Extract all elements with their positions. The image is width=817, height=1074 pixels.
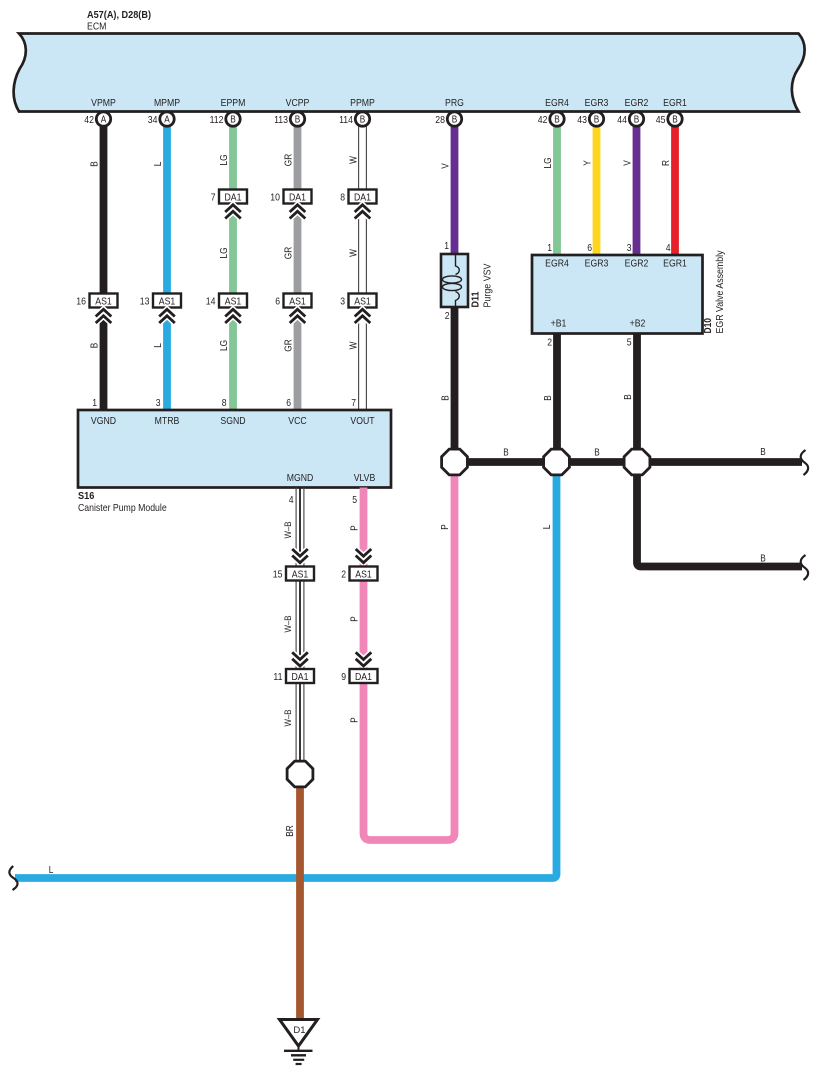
wire B from D10 +B2 to junction node — [633, 332, 641, 462]
svg-text:8: 8 — [222, 397, 227, 409]
svg-text:45: 45 — [656, 114, 666, 126]
junction node J1 — [442, 449, 468, 475]
svg-text:B: B — [760, 447, 766, 458]
svg-text:B: B — [452, 115, 458, 126]
svg-text:VCC: VCC — [288, 415, 307, 427]
svg-text:34: 34 — [148, 114, 158, 126]
svg-text:6: 6 — [587, 242, 592, 254]
svg-text:113: 113 — [274, 114, 288, 126]
D11 designator label — [470, 263, 494, 307]
svg-text:V: V — [623, 160, 634, 166]
svg-text:W: W — [349, 249, 360, 257]
D11 Purge VSV valve box — [441, 254, 468, 307]
svg-text:L: L — [153, 343, 164, 348]
ECM pin 34 connector A (MPMP) — [148, 112, 174, 126]
svg-text:B: B — [295, 115, 301, 126]
chevrons above AS1 pin 2 — [356, 549, 372, 563]
connector AS1 pin 15 (MGND wire) — [273, 567, 314, 581]
svg-text:6: 6 — [275, 296, 280, 308]
svg-text:D1: D1 — [293, 1025, 305, 1036]
wire LG from ECM pin 112 EPPM to S16 pin 8 — [229, 124, 237, 410]
svg-text:10: 10 — [270, 192, 280, 204]
svg-text:44: 44 — [617, 114, 627, 126]
ECM pin 114 connector B (PPMP) — [339, 112, 370, 126]
svg-text:LG: LG — [219, 154, 230, 165]
svg-text:28: 28 — [435, 114, 445, 126]
svg-text:EGR3: EGR3 — [585, 97, 609, 109]
svg-text:4: 4 — [289, 494, 294, 506]
svg-text:3: 3 — [156, 397, 161, 409]
svg-text:P: P — [440, 524, 451, 530]
svg-text:LG: LG — [543, 157, 554, 168]
svg-text:B: B — [230, 115, 236, 126]
svg-text:MTRB: MTRB — [155, 415, 180, 427]
svg-text:112: 112 — [210, 114, 224, 126]
svg-text:6: 6 — [286, 397, 291, 409]
ECM pin 42 connector A (VPMP) — [84, 112, 110, 126]
connector DA1 pin 9 (VLVB wire) — [341, 669, 377, 683]
wire B from D10 +B1 to junction node — [553, 332, 561, 462]
svg-text:B: B — [594, 115, 600, 126]
svg-text:EGR1: EGR1 — [663, 258, 687, 270]
svg-text:B: B — [503, 448, 509, 459]
svg-text:VGND: VGND — [91, 415, 117, 427]
svg-text:8: 8 — [340, 192, 345, 204]
svg-text:GR: GR — [284, 154, 295, 166]
chevrons below AS1 pin 14 — [225, 309, 241, 323]
svg-text:EGR3: EGR3 — [585, 258, 609, 270]
connector DA1 pin 7 (EPPM wire) — [211, 190, 247, 204]
connector AS1 pin 14 (EPPM wire) — [206, 294, 247, 308]
svg-text:B: B — [360, 115, 366, 126]
svg-text:4: 4 — [666, 242, 671, 254]
connector AS1 pin 6 (VCPP wire) — [275, 294, 311, 308]
svg-text:A57(A), D28(B): A57(A), D28(B) — [87, 9, 151, 21]
svg-text:VCPP: VCPP — [286, 97, 310, 109]
ECM pin 45 connector B (EGR1) — [656, 112, 682, 126]
connector DA1 pin 10 (VCPP wire) — [270, 190, 311, 204]
svg-text:A: A — [101, 115, 107, 126]
svg-text:B: B — [90, 342, 101, 348]
connector AS1 pin 13 (MPMP wire) — [140, 294, 181, 308]
svg-text:BR: BR — [285, 825, 296, 837]
svg-text:D11: D11 — [470, 291, 482, 307]
chevrons above DA1 pin 9 — [356, 652, 372, 666]
chevrons below DA1 pin 8 — [355, 205, 371, 219]
svg-text:Canister Pump Module: Canister Pump Module — [78, 502, 167, 514]
svg-text:A: A — [164, 115, 170, 126]
wire R from ECM pin 45 EGR1 to D10 pin 4 — [671, 124, 679, 257]
svg-text:3: 3 — [340, 296, 345, 308]
svg-text:42: 42 — [84, 114, 94, 126]
svg-text:+B1: +B1 — [551, 318, 567, 330]
svg-text:1: 1 — [547, 242, 552, 254]
svg-text:B: B — [760, 554, 766, 565]
svg-text:MGND: MGND — [287, 472, 314, 484]
S16 designator label — [78, 490, 167, 514]
svg-text:V: V — [441, 163, 452, 169]
ECM pin 112 connector B (EPPM) — [210, 112, 241, 126]
wire GR from ECM pin 113 VCPP to S16 pin 6 — [294, 124, 302, 410]
connector DA1 pin 11 (MGND wire) — [273, 669, 314, 683]
chevrons above AS1 pin 15 — [292, 549, 308, 563]
svg-text:ECM: ECM — [87, 21, 106, 33]
svg-text:B: B — [554, 115, 560, 126]
chevrons below AS1 pin 16 — [96, 309, 112, 323]
svg-text:16: 16 — [76, 296, 86, 308]
svg-text:11: 11 — [273, 671, 282, 683]
svg-text:VOUT: VOUT — [350, 415, 375, 427]
svg-text:EGR4: EGR4 — [545, 258, 569, 270]
svg-text:Y: Y — [583, 160, 594, 166]
svg-text:L: L — [49, 865, 54, 876]
svg-text:P: P — [350, 717, 361, 723]
svg-text:114: 114 — [339, 114, 353, 126]
wire V from ECM pin 44 EGR2 to D10 pin 3 — [633, 124, 641, 257]
svg-text:W: W — [349, 341, 360, 349]
connector AS1 pin 2 (VLVB wire) — [341, 567, 377, 581]
svg-text:W–B: W–B — [283, 615, 294, 632]
break symbol left end of L wire — [9, 866, 17, 890]
wire B from D11 pin 2 to junction node — [451, 305, 459, 462]
svg-text:SGND: SGND — [220, 415, 246, 427]
svg-text:R: R — [661, 160, 672, 166]
svg-text:LG: LG — [219, 340, 230, 351]
svg-text:15: 15 — [273, 569, 283, 581]
ECM pin 42 connector B (EGR4) — [538, 112, 564, 126]
break symbol right end of bus — [801, 450, 808, 475]
wire LG from ECM pin 42 EGR4 to D10 pin 1 — [553, 124, 561, 257]
ground symbol D1 — [280, 1020, 318, 1065]
svg-text:EPPM: EPPM — [221, 97, 246, 109]
chevrons below DA1 pin 10 — [290, 205, 306, 219]
svg-text:L: L — [153, 161, 164, 166]
svg-text:LG: LG — [219, 247, 230, 258]
svg-text:W: W — [349, 156, 360, 164]
S16 Canister Pump Module block — [78, 410, 391, 488]
wire P from S16 VLVB pin 5 down, right, up to junction J1 — [364, 462, 455, 840]
svg-text:VPMP: VPMP — [91, 97, 116, 109]
svg-text:1: 1 — [92, 397, 97, 409]
junction node J4 (W-B to BR splice) — [287, 761, 313, 787]
svg-text:B: B — [623, 394, 634, 400]
svg-text:P: P — [350, 525, 361, 531]
svg-text:D10: D10 — [702, 318, 714, 334]
wire B from ECM pin 42 VPMP to S16 pin 1 — [100, 124, 108, 410]
D10 EGR Valve Assembly block — [532, 255, 703, 334]
chevrons below DA1 pin 7 — [225, 205, 241, 219]
svg-text:S16: S16 — [78, 490, 94, 502]
ECM pin 44 connector B (EGR2) — [617, 112, 643, 126]
svg-text:W–B: W–B — [283, 709, 294, 726]
svg-text:EGR Valve Assembly: EGR Valve Assembly — [715, 251, 726, 334]
svg-text:AS1: AS1 — [292, 569, 309, 581]
svg-text:B: B — [543, 395, 554, 401]
ECM pin 43 connector B (EGR3) — [577, 112, 603, 126]
chevrons below AS1 pin 3 — [355, 309, 371, 323]
svg-text:GR: GR — [284, 247, 295, 259]
junction node J2 — [544, 449, 570, 475]
svg-text:2: 2 — [445, 310, 450, 322]
connector AS1 pin 16 (VPMP wire) — [76, 294, 117, 308]
svg-text:43: 43 — [577, 114, 587, 126]
wire BR from junction J4 to ground D1 — [296, 774, 304, 1020]
svg-text:2: 2 — [341, 569, 346, 581]
svg-text:GR: GR — [284, 339, 295, 351]
junction node J3 — [624, 449, 650, 475]
svg-text:B: B — [441, 395, 452, 401]
wire B branch from junction J3 down and right to edge break — [637, 462, 802, 567]
svg-text:B: B — [634, 115, 640, 126]
chevrons below AS1 pin 13 — [159, 309, 175, 323]
wire V from ECM pin 28 PRG to D11 pin 1 — [451, 124, 459, 256]
wire L from ECM pin 34 MPMP to S16 pin 3 — [163, 124, 171, 410]
svg-text:3: 3 — [627, 242, 632, 254]
svg-text:DA1: DA1 — [355, 671, 372, 683]
svg-text:B: B — [672, 115, 678, 126]
wire Y from ECM pin 43 EGR3 to D10 pin 6 — [593, 124, 601, 257]
svg-text:5: 5 — [627, 337, 632, 349]
svg-text:PPMP: PPMP — [350, 97, 375, 109]
svg-text:B: B — [90, 161, 101, 167]
svg-text:EGR2: EGR2 — [625, 258, 649, 270]
connector DA1 pin 8 (PPMP wire) — [340, 190, 376, 204]
svg-text:W–B: W–B — [283, 521, 294, 538]
ECM pin 113 connector B (VCPP) — [274, 112, 305, 126]
svg-text:PRG: PRG — [445, 97, 464, 109]
svg-text:MPMP: MPMP — [154, 97, 180, 109]
svg-text:9: 9 — [341, 671, 346, 683]
connector AS1 pin 3 (PPMP wire) — [340, 294, 376, 308]
svg-text:AS1: AS1 — [355, 569, 372, 581]
wire L from junction J2 down and left to edge break — [15, 462, 557, 878]
svg-text:EGR2: EGR2 — [625, 97, 649, 109]
chevrons below AS1 pin 6 — [290, 309, 306, 323]
chevrons above DA1 pin 11 — [292, 652, 308, 666]
svg-text:2: 2 — [547, 337, 552, 349]
svg-text:5: 5 — [352, 494, 357, 506]
svg-text:EGR4: EGR4 — [545, 97, 569, 109]
svg-text:VLVB: VLVB — [354, 472, 376, 484]
svg-text:7: 7 — [351, 397, 356, 409]
svg-text:7: 7 — [211, 192, 216, 204]
svg-text:42: 42 — [538, 114, 548, 126]
D10 designator label — [702, 251, 726, 334]
svg-text:EGR1: EGR1 — [663, 97, 687, 109]
wire W from ECM pin 114 PPMP to S16 pin 7 — [359, 124, 367, 410]
svg-text:L: L — [542, 524, 553, 529]
svg-text:B: B — [594, 448, 600, 459]
wire W-B from S16 MGND pin 4 to junction J4 — [296, 488, 304, 775]
ECM pin 28 connector B (PRG) — [435, 112, 461, 126]
svg-text:13: 13 — [140, 296, 150, 308]
ECM block A57(A), D28(B) — [14, 9, 805, 112]
svg-text:Purge VSV: Purge VSV — [483, 263, 494, 307]
svg-text:14: 14 — [206, 296, 216, 308]
svg-text:DA1: DA1 — [292, 671, 309, 683]
wire B bus from junction J1 to right edge break — [455, 458, 803, 466]
svg-text:+B2: +B2 — [630, 318, 646, 330]
svg-text:1: 1 — [444, 240, 449, 252]
svg-text:P: P — [350, 616, 361, 622]
break symbol right end of lower branch — [801, 555, 808, 580]
